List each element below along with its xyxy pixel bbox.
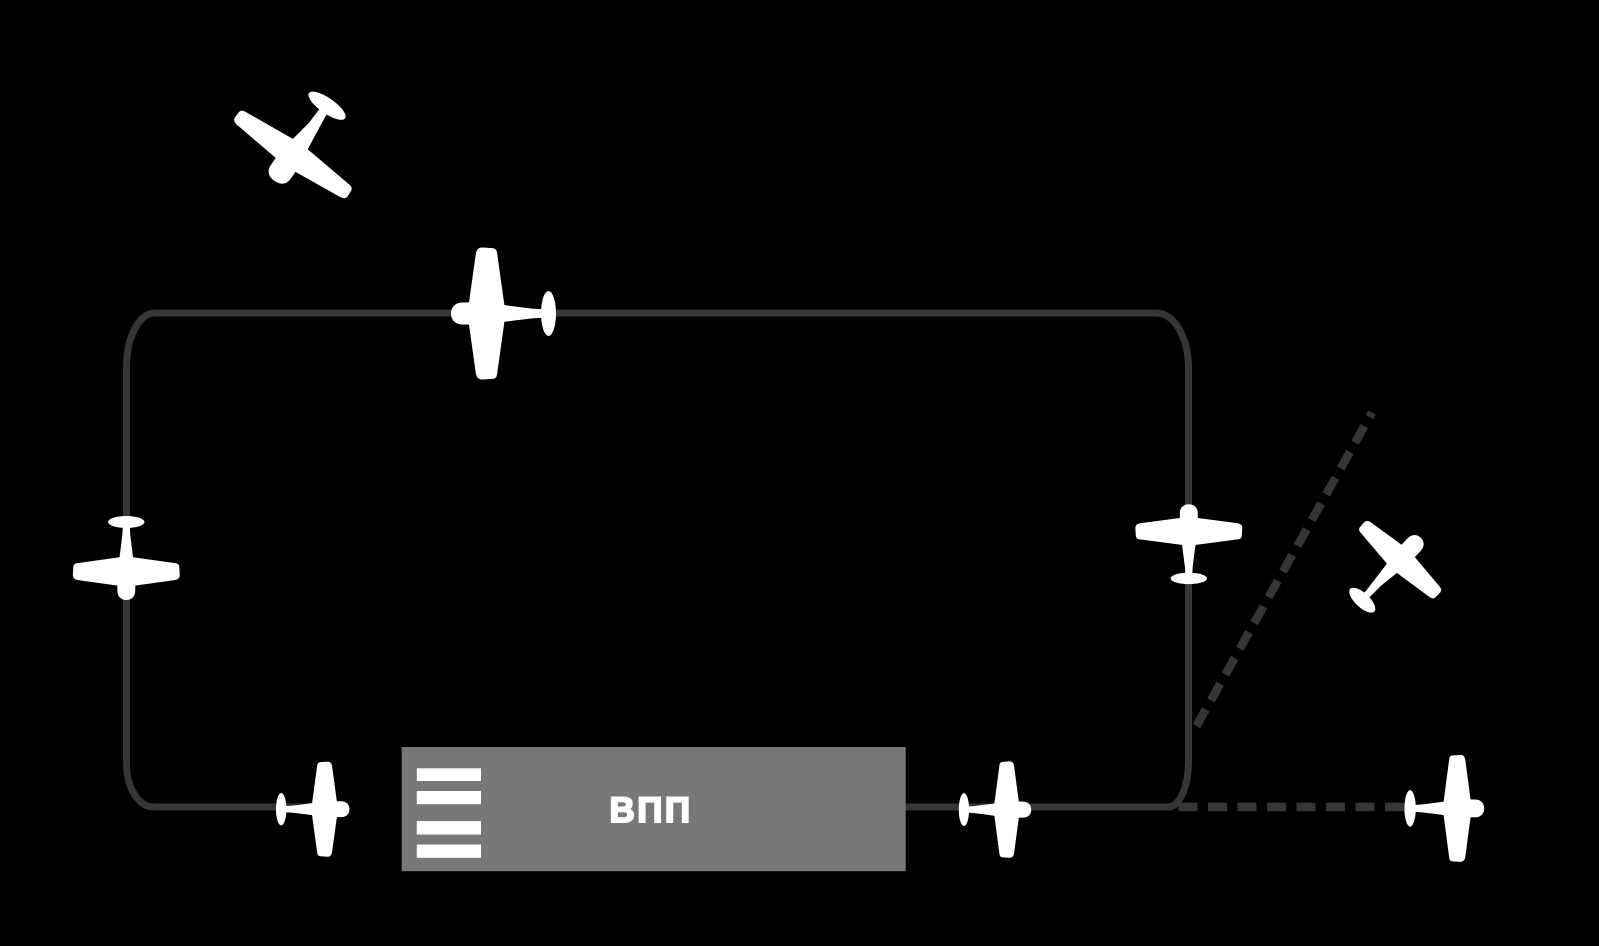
plane: departing right (bottom right, flying right) [1404,755,1484,862]
dashed entry line (diagonal) [1197,413,1373,727]
runway [402,747,906,871]
plane: after runway (bottom middle, flying right) [959,761,1031,857]
plane: final approach (bottom left, flying right) [276,762,350,857]
runway threshold stripe 1 [417,768,481,781]
svg-text:ВПП: ВПП [609,791,692,830]
runway threshold stripe 4 [417,845,481,858]
runway threshold stripe 3 [417,821,481,835]
plane: downwind leg (top, flying left) [451,247,556,379]
plane: 45-degree exit (right side, flying up-right) [1320,502,1459,640]
plane: crosswind-to-base leg (left, flying down) [73,516,180,600]
runway threshold stripe 2 [417,791,481,804]
plane: upwind leg (right, flying up) [1135,504,1242,584]
dashed departure line (horizontal) [1179,803,1406,812]
traffic-pattern loop (rounded rectangle, gap at runway) [127,313,1189,807]
plane: banked turn (top left, flying down-left) [218,60,388,220]
